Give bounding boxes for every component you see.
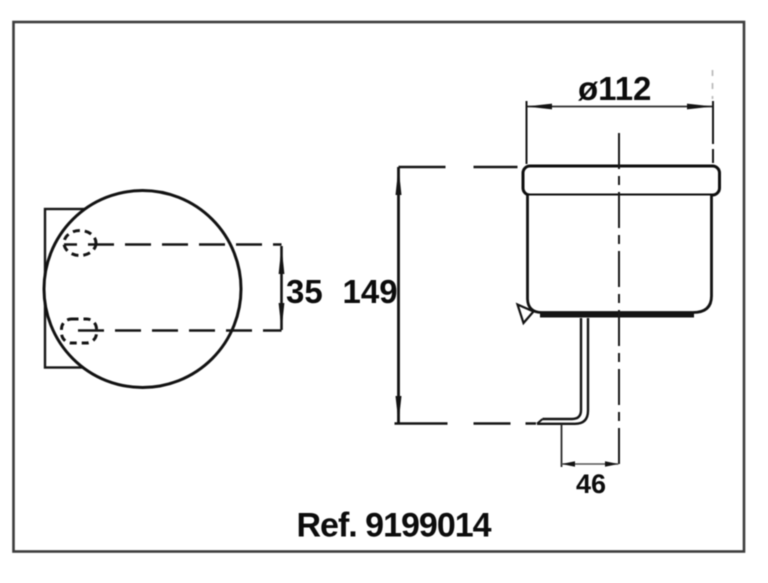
- svg-text:Ref. 9199014: Ref. 9199014: [297, 507, 492, 545]
- hole bottom (dashed ellipse): [62, 319, 97, 343]
- svg-text:149: 149: [343, 273, 398, 310]
- mounting strap vertical + foot (outer line): [537, 318, 588, 424]
- bottom seam line: [540, 314, 694, 318]
- dashed center line bottom hole: [78, 329, 282, 332]
- extension line 46 left: [561, 424, 563, 467]
- arrow up 35: [279, 246, 285, 274]
- extension line 149 bottom: [395, 422, 537, 425]
- dimension line 46: [562, 463, 619, 465]
- reservoir body: [528, 196, 712, 313]
- arrow down 35: [279, 303, 285, 330]
- dimension line d112: [526, 106, 713, 108]
- dashed center line top hole: [64, 243, 282, 246]
- arrow right d112: [687, 104, 713, 110]
- dimension line 35: [280, 246, 283, 330]
- strap foot left end cap: [537, 419, 543, 424]
- arrow left 46: [562, 461, 576, 466]
- extension line d112 left: [526, 101, 528, 164]
- extension line d112 right: [712, 101, 714, 196]
- bracket on left of circle: [45, 209, 107, 368]
- hole top (dashed ellipse): [64, 231, 96, 256]
- vertical center line (dash-dot): [618, 133, 620, 467]
- circle (top view of reservoir): [44, 191, 241, 388]
- mounting strap vertical + foot (inner line): [543, 318, 582, 419]
- spout triangle bottom-left: [518, 305, 534, 324]
- arrow down 149: [396, 396, 402, 423]
- faded extension marks above d112 line: [712, 70, 714, 99]
- svg-text:35: 35: [286, 273, 323, 310]
- extension line 149 top: [399, 166, 522, 168]
- svg-text:46: 46: [576, 469, 606, 499]
- arrow up 149: [396, 167, 402, 195]
- arrow left d112: [526, 104, 552, 110]
- svg-text:ø112: ø112: [578, 70, 651, 107]
- reservoir lid: [523, 166, 720, 195]
- arrow right 46: [605, 461, 619, 466]
- dimension line 149: [397, 167, 400, 423]
